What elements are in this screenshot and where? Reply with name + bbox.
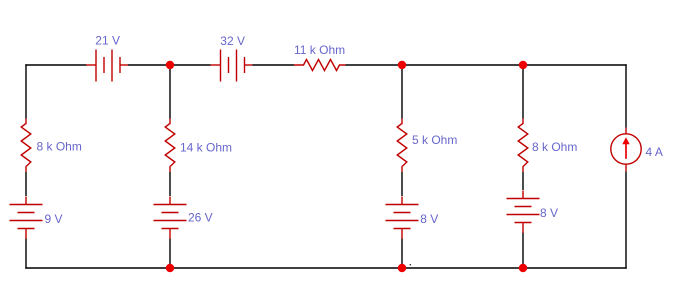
- svg-text:8 V: 8 V: [540, 206, 558, 220]
- resistor R2 14 k Ohm vertical: [165, 119, 175, 173]
- battery V2 32 V horizontal: [211, 50, 253, 82]
- resistor R3 11 k Ohm horizontal: [294, 60, 346, 71]
- battery V3 9 V vertical: [10, 197, 43, 240]
- node B junction dot top branch3: [398, 61, 406, 69]
- node E junction dot bottom branch3: [398, 264, 406, 272]
- battery V5 8 V vertical: [386, 197, 419, 240]
- resistor R1 8 k Ohm vertical left: [21, 119, 31, 173]
- battery V6 8 V vertical: [507, 191, 540, 234]
- svg-text:14 k Ohm: 14 k Ohm: [180, 140, 232, 154]
- svg-text:11 k Ohm: 11 k Ohm: [294, 43, 345, 57]
- svg-text:32 V: 32 V: [220, 34, 245, 48]
- wire branch4 upper: [522, 65, 524, 119]
- wire left rail upper: [25, 64, 27, 118]
- node C junction dot top branch4: [519, 61, 527, 69]
- wire top rail segment 2: [128, 64, 211, 66]
- wire branch4 lower: [522, 233, 524, 269]
- wire top rail segment 4: [346, 64, 627, 66]
- wire branch2 upper: [169, 65, 171, 119]
- svg-text:8 V: 8 V: [420, 212, 438, 226]
- wire right rail upper: [625, 64, 627, 127]
- wire left rail lower: [25, 239, 27, 269]
- wire right rail lower: [625, 172, 627, 269]
- wire branch3 lower: [401, 239, 403, 269]
- wire branch3 middle: [401, 172, 403, 196]
- speck artifact: [410, 264, 412, 266]
- wire branch2 middle: [169, 172, 171, 196]
- battery V4 26 V vertical: [154, 197, 187, 240]
- svg-text:26 V: 26 V: [188, 211, 213, 225]
- resistor R4 5 k Ohm vertical: [397, 119, 407, 173]
- resistor R5 8 k Ohm vertical: [518, 119, 528, 173]
- wire branch4 middle: [522, 172, 524, 190]
- current source I1 4 A: [611, 128, 641, 172]
- svg-text:9 V: 9 V: [45, 212, 63, 226]
- wire top rail segment 3: [253, 64, 295, 66]
- svg-text:8 k Ohm: 8 k Ohm: [532, 140, 577, 154]
- wire branch3 upper: [401, 65, 403, 119]
- wire top rail segment 1: [25, 64, 86, 66]
- wire branch2 lower: [169, 239, 171, 269]
- battery V1 21 V horizontal: [86, 50, 128, 82]
- svg-text:21 V: 21 V: [95, 34, 120, 48]
- svg-text:4 A: 4 A: [646, 145, 663, 159]
- wire bottom rail: [25, 267, 626, 269]
- node A junction dot top branch2: [166, 61, 174, 69]
- node F junction dot bottom branch4: [519, 264, 527, 272]
- svg-text:8 k Ohm: 8 k Ohm: [37, 140, 82, 154]
- wire left rail middle: [25, 172, 27, 196]
- node D junction dot bottom branch2: [166, 264, 174, 272]
- svg-text:5 k Ohm: 5 k Ohm: [412, 133, 457, 147]
